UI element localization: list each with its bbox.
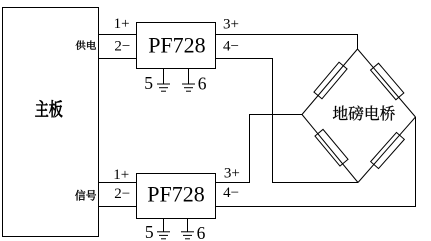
transmitter U1 PF728 (top) [137, 23, 216, 69]
wire 主板 to U1 pin2 [99, 58, 137, 60]
svg-text:3+: 3+ [224, 165, 240, 181]
bridge edge bottom-left wire [302, 115, 358, 183]
svg-text:2−: 2− [114, 39, 130, 55]
label 信号 [75, 190, 96, 201]
transmitter U2 PF728 (bottom) [137, 174, 216, 219]
motherboard box 主板 [3, 8, 99, 237]
wire U2 pin4 to bridge right node [216, 117, 416, 207]
label 供电 [76, 40, 96, 49]
ground at U2 pin5 [157, 219, 170, 239]
strain gauge R3 (bottom-left arm) [315, 129, 348, 166]
ground at U2 pin6 [181, 219, 194, 239]
bridge edge top-right wire [358, 49, 416, 117]
svg-text:6: 6 [198, 73, 207, 93]
svg-text:4−: 4− [223, 39, 239, 55]
svg-text:4−: 4− [223, 185, 239, 201]
wire U2 pin3 to bridge left node [216, 115, 303, 183]
bridge edge top-left wire [302, 49, 358, 115]
svg-text:1+: 1+ [113, 167, 129, 183]
strain gauge R4 (bottom-right arm) [371, 132, 405, 168]
wire U1 pin4 to bridge bottom node [216, 59, 359, 183]
svg-text:2−: 2− [114, 186, 130, 202]
ground at U1 pin6 [182, 69, 195, 92]
wire U1 pin3 to bridge top node [216, 35, 358, 50]
bridge edge bottom-right wire [358, 117, 416, 183]
svg-text:1+: 1+ [114, 16, 130, 32]
svg-text:5: 5 [145, 222, 154, 241]
svg-text:PF728: PF728 [147, 182, 204, 207]
label 地磅电桥 [333, 105, 395, 120]
ground at U1 pin5 [157, 69, 170, 92]
strain gauge R1 (top-left arm) [314, 62, 347, 99]
svg-text:PF728: PF728 [148, 32, 205, 57]
wire 主板 to U2 pin1 [99, 182, 137, 184]
wire 主板 to U1 pin1 [99, 34, 137, 36]
svg-text:3+: 3+ [223, 17, 239, 33]
strain gauge R2 (top-right arm) [371, 63, 404, 99]
wire 主板 to U2 pin2 [99, 206, 137, 208]
svg-text:6: 6 [197, 223, 206, 241]
svg-text:5: 5 [144, 73, 153, 93]
label 主板 [35, 100, 62, 117]
